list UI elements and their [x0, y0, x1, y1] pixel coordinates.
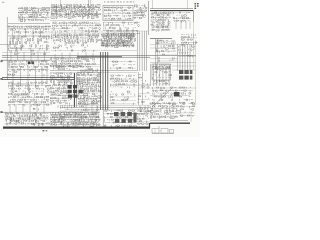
wire: hline left y23.5 — [8, 23, 50, 25]
component cluster: center-left dense rows — [50, 73, 75, 105]
wire: vertical drop x47 — [46, 66, 48, 84]
wire: vertical drop x42 — [41, 66, 43, 86]
wire: right horizontal y95 — [150, 95, 190, 97]
component cluster: above-bus marks — [78, 103, 99, 111]
component cluster: logic block overlay — [102, 34, 134, 47]
wire: diagonal link — [152, 88, 172, 107]
wire: top feeder 3 — [152, 0, 154, 9]
wire: horizontal bus C left — [1, 59, 50, 61]
component cluster: bottom-right dense rows — [150, 103, 181, 119]
ic: dark IC U10 — [68, 95, 72, 98]
component cluster: RF amp lower row — [52, 22, 101, 33]
wire: horizontal bus y112 left — [2, 111, 100, 113]
block: IF module outline — [103, 6, 133, 21]
wire: rail drop 3 — [171, 11, 173, 14]
wire: left edge stub y44 — [0, 44, 18, 46]
bus: vertical bus bundle right — [178, 44, 191, 71]
wire: hline right y58.5 — [150, 58, 178, 60]
wire: main bus y77.5 left — [2, 77, 74, 79]
component cluster: bias row lower sparse — [51, 47, 100, 52]
bus: vertical bus bundle center-right — [138, 31, 147, 71]
wire: +12V rail heavy (lower) — [150, 10, 193, 12]
wire: heavy bottom bus right (raised) — [150, 122, 190, 124]
ic: dark box right x174 — [174, 92, 180, 97]
wire: vertical x103 bottom — [102, 105, 104, 127]
wire: heavy bus segment y57 — [77, 56, 122, 58]
component cluster: mid-right lower sparse — [110, 91, 136, 105]
wire: tie line row y31 — [95, 30, 148, 32]
wire: horizontal link y72 — [50, 71, 137, 73]
wire: hline left y52.6 — [2, 52, 50, 54]
component cluster: left control rows — [8, 82, 50, 106]
wire: hline right y48 — [150, 47, 177, 49]
label: sheet zone mark 4 — [0, 111, 2, 113]
wire: vertical drop x35 — [35, 66, 37, 88]
component cluster: bottom-center vertical overlay — [52, 112, 99, 125]
wire: stub bundle y20-28 right — [153, 20, 190, 30]
block: divider box outline — [10, 38, 22, 48]
component cluster: RF amp Q1-Q4 (dense) — [51, 4, 102, 19]
block: transformer T1 outline — [12, 84, 29, 95]
component cluster: PSU regulator area — [151, 12, 172, 32]
block: right module outline — [152, 64, 171, 80]
wire: vertical drop x28 — [27, 66, 29, 90]
wire: rail drop 2 — [163, 11, 165, 14]
label: sheet zone mark 3 — [0, 78, 2, 80]
component cluster: battery pack below bus — [152, 126, 174, 133]
label: sheet zone mark 2 — [0, 61, 2, 63]
component cluster: left light row y50 — [8, 50, 50, 55]
connector: top-right corner J1 — [195, 3, 199, 9]
component cluster: right mid grid — [178, 46, 196, 58]
component cluster: mid-right rows — [110, 75, 137, 89]
bus: vertical cluster x150-170 — [151, 64, 170, 86]
wire: vertical tick array bottom — [58, 105, 74, 110]
component cluster: PSU filter caps — [173, 12, 191, 23]
component cluster: RF amp circles overlay — [53, 6, 96, 16]
wire: heavy vertical companion x76.3 — [75, 73, 77, 107]
wire: line above right band — [150, 120, 188, 122]
wire: stub bundle y50-60 left — [11, 50, 45, 61]
wire: horizontal link y70 — [50, 70, 137, 72]
component cluster: x137-150 filler — [138, 74, 150, 103]
component cluster: audio dividers (vertical) — [8, 35, 50, 50]
wire: right link y62 — [150, 62, 196, 64]
component cluster: center row lower — [50, 66, 100, 71]
component cluster: bottom-center dense — [50, 112, 101, 127]
component cluster: left sparse under bus — [8, 71, 50, 77]
wire: horizontal bus A (upper) — [2, 54, 196, 56]
component cluster: right mid lower — [158, 54, 177, 62]
wire: hline left y35.5 — [8, 35, 50, 37]
wire: hline right y44.5 — [150, 44, 196, 46]
ic: dark IC U9 — [68, 90, 72, 93]
wire: vertical drop x13 — [12, 66, 14, 88]
component cluster: tick array under RF — [51, 33, 102, 42]
wire: hline y50.5 center — [101, 50, 137, 52]
component cluster: IF lower row — [103, 22, 140, 36]
wire: bottom hline y109.2 — [65, 108, 145, 110]
wire: bottom hline y107.2 — [60, 106, 150, 108]
wire: crossbar right mid — [150, 38, 172, 40]
component cluster: IF strip inside module — [104, 7, 132, 20]
component cluster: bias row upper — [55, 42, 97, 48]
component cluster: center row right lighter — [84, 58, 100, 66]
wire: tie line row y28 — [8, 28, 70, 30]
wire: heavy bottom bus left — [3, 126, 150, 128]
component cluster: mid filler 104-136 — [104, 110, 137, 128]
label: corner mark top-left — [2, 1, 4, 4]
ic: dark IC bank bottom U13-U15 — [114, 112, 119, 116]
component cluster: antenna input upper R1-R8 — [18, 7, 50, 22]
wire: vertical drop x20 — [20, 66, 22, 86]
component: marks below band — [43, 130, 45, 131]
bus: vertical bundle x101-108 — [101, 52, 108, 110]
component cluster: logic block (very dense) — [101, 33, 136, 47]
wire: hline y85.6 center-right — [110, 85, 150, 87]
wire: left border vertical — [6, 17, 8, 80]
component cluster: bottom mid-right — [137, 108, 151, 125]
component cluster: far right lighter — [180, 103, 195, 117]
wire: main bus y79.5 left — [2, 79, 74, 81]
ic: dark IC U8 — [68, 85, 72, 88]
wire: bus y79 right segment — [77, 78, 100, 80]
wire: bottom hline y111 — [60, 110, 100, 112]
component cluster: center row dense — [50, 57, 85, 68]
wire: top feeder 2 — [88, 0, 90, 6]
component cluster: IF right section — [134, 4, 148, 18]
wire: horizontal bus B (lower) — [2, 56, 150, 58]
wire: right link y66 — [172, 65, 196, 67]
component cluster: lower-left row A — [8, 61, 49, 72]
component cluster: right box parts y64-80 — [152, 66, 172, 84]
wire: bottom bus step — [149, 123, 151, 128]
bus: vertical pair x138 lower — [138, 72, 140, 105]
component cluster: right of bus rows — [152, 87, 194, 105]
wire: vertical pair x155 — [154, 39, 156, 70]
component cluster: bottom-left rows — [5, 113, 50, 126]
ic: dark mark pair x28 — [28, 62, 31, 65]
component cluster: center dense lower — [78, 86, 102, 106]
wire: tie line row y33 — [30, 32, 120, 34]
wire: vertical main bus x148 — [148, 1, 150, 35]
wire: right horizontal y88 — [138, 87, 196, 89]
label: sheet title text — [104, 1, 134, 4]
wire: top feeder 1 — [60, 0, 62, 6]
wire: vertical x191 bottom — [190, 112, 192, 122]
wire: hline under RF y20.5 — [50, 20, 100, 22]
component cluster: relay driver — [156, 40, 176, 53]
component cluster: input lower row R9-R15 — [8, 26, 51, 34]
ic: dark IC bank U11-U12 — [179, 70, 183, 74]
wire: heavy vertical bus x74.4 — [73, 73, 75, 107]
wire: rail drop 4 — [179, 11, 181, 14]
component cluster: mid-right sparse — [110, 61, 136, 70]
component cluster: bottom-left vertical overlay — [6, 113, 48, 126]
wire: right link y70 — [172, 69, 196, 71]
wire: rail end vertical — [192, 10, 194, 22]
wire: rail drop 1 — [155, 11, 157, 14]
wire: stub bundle y28-38 — [13, 28, 134, 38]
wire: right edge vertical pair — [193, 10, 195, 70]
component cluster: right module box parts — [152, 64, 171, 70]
component cluster: output filter — [181, 34, 198, 46]
wire: bottom hline y105.2 — [60, 104, 150, 106]
wire: top feeder 4 — [187, 0, 189, 9]
wire: +12V rail thin (upper) — [150, 8, 193, 10]
wire: stub bundle y104-114 — [10, 104, 173, 114]
component cluster: left top bottomband — [22, 105, 38, 110]
wire: stub bundle y52-62 center — [55, 52, 93, 61]
component cluster: center dense upper — [77, 70, 101, 87]
